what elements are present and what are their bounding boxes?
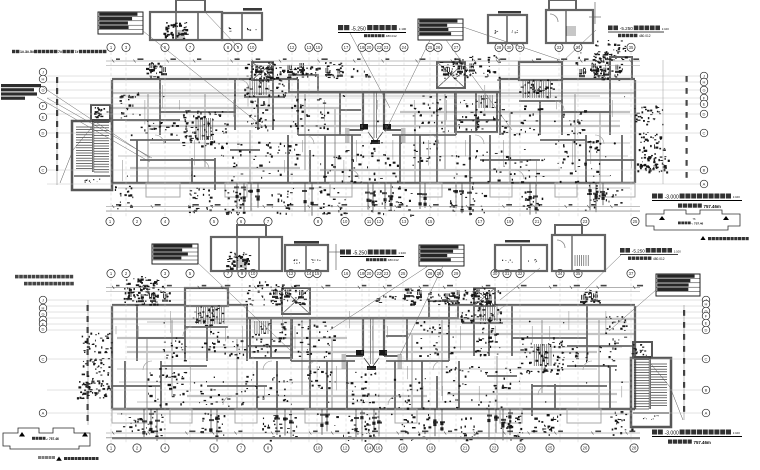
svg-text:34: 34: [576, 45, 581, 50]
svg-text:23: 23: [384, 45, 389, 50]
svg-text:757.46m: 757.46m: [694, 440, 711, 445]
svg-text:28: 28: [632, 446, 637, 451]
svg-text:-: 757.46: -: 757.46: [46, 437, 59, 441]
svg-text:22: 22: [492, 446, 497, 451]
svg-text:10: 10: [343, 219, 348, 224]
svg-text:35: 35: [629, 45, 634, 50]
svg-text:17: 17: [478, 219, 483, 224]
svg-text:J: J: [703, 74, 705, 79]
svg-text:25: 25: [633, 219, 638, 224]
svg-text:19: 19: [507, 219, 512, 224]
svg-text:-5.250: -5.250: [632, 249, 645, 254]
svg-text:14: 14: [367, 446, 372, 451]
svg-text:29: 29: [454, 271, 459, 276]
svg-text:23: 23: [519, 446, 524, 451]
svg-text:15: 15: [428, 219, 433, 224]
svg-text:1:100: 1:100: [733, 431, 740, 435]
svg-text:-3.000: -3.000: [665, 431, 679, 437]
svg-text:B: B: [703, 168, 706, 173]
svg-text:24: 24: [402, 45, 407, 50]
svg-text:C: C: [42, 357, 45, 362]
svg-text:E: E: [42, 115, 45, 120]
svg-text:7#: 7#: [75, 50, 79, 54]
svg-text:1:100: 1:100: [733, 195, 740, 199]
svg-text:10: 10: [250, 45, 255, 50]
svg-text:J: J: [42, 70, 44, 75]
svg-text:H: H: [42, 306, 45, 311]
svg-text:18: 18: [360, 45, 365, 50]
svg-text:25: 25: [428, 45, 433, 50]
svg-text:-5.250: -5.250: [620, 26, 633, 31]
svg-text:D: D: [703, 112, 706, 117]
svg-text:E: E: [705, 321, 708, 326]
svg-text:15: 15: [316, 45, 321, 50]
svg-text:21: 21: [535, 219, 540, 224]
svg-text:11: 11: [367, 219, 372, 224]
svg-text:J: J: [42, 298, 44, 303]
svg-text:A: A: [703, 182, 706, 187]
svg-text:22: 22: [377, 271, 382, 276]
svg-text:19: 19: [429, 446, 434, 451]
svg-text:23: 23: [384, 271, 389, 276]
svg-text:27: 27: [454, 45, 459, 50]
svg-text:A: A: [705, 411, 708, 416]
svg-text:G: G: [702, 88, 705, 93]
svg-text:480.012: 480.012: [639, 34, 651, 38]
svg-text:12: 12: [343, 446, 348, 451]
svg-text:16: 16: [344, 271, 349, 276]
svg-text:18: 18: [401, 446, 406, 451]
svg-text:25: 25: [548, 446, 553, 451]
svg-text:13: 13: [402, 219, 407, 224]
svg-text:37: 37: [629, 271, 634, 276]
svg-text:33: 33: [557, 45, 562, 50]
svg-text:12: 12: [290, 45, 295, 50]
svg-text:480.012: 480.012: [386, 34, 397, 38]
svg-text:C: C: [705, 357, 708, 362]
svg-text:17: 17: [344, 45, 349, 50]
svg-text:H: H: [703, 80, 706, 85]
svg-text:H: H: [705, 302, 708, 307]
svg-text:10: 10: [316, 446, 321, 451]
svg-text:26: 26: [583, 446, 588, 451]
svg-text:1:100: 1:100: [674, 250, 681, 254]
svg-text:757.46m: 757.46m: [704, 204, 721, 209]
svg-text:28: 28: [497, 45, 502, 50]
svg-text:20: 20: [367, 45, 372, 50]
svg-text:-3.000: -3.000: [665, 195, 679, 201]
svg-text:480.012: 480.012: [653, 257, 665, 261]
svg-text:25: 25: [401, 271, 406, 276]
svg-text:1:100: 1:100: [398, 251, 406, 255]
svg-text:21: 21: [463, 446, 468, 451]
svg-text:C: C: [703, 131, 706, 136]
svg-text:D: D: [42, 131, 45, 136]
svg-text:-5.250: -5.250: [351, 27, 366, 33]
svg-text:23: 23: [583, 219, 588, 224]
svg-text:22: 22: [377, 45, 382, 50]
svg-text:18: 18: [360, 271, 365, 276]
svg-text:-5.250: -5.250: [353, 251, 367, 257]
svg-text:B: B: [705, 388, 708, 393]
svg-text:30: 30: [507, 45, 512, 50]
svg-text:C: C: [42, 168, 45, 173]
svg-text:E: E: [703, 102, 706, 107]
svg-text:1:100: 1:100: [662, 27, 669, 31]
svg-text:26: 26: [436, 45, 441, 50]
svg-text:-: 757.46: -: 757.46: [691, 222, 703, 226]
svg-text:16: 16: [376, 446, 381, 451]
svg-text:A: A: [42, 411, 45, 416]
svg-text:13: 13: [307, 45, 312, 50]
svg-text:1:100: 1:100: [399, 27, 407, 31]
svg-text:D: D: [705, 328, 708, 333]
svg-text:G: G: [41, 312, 44, 317]
svg-text:12: 12: [377, 219, 382, 224]
svg-text:26: 26: [428, 271, 433, 276]
svg-text:480.012: 480.012: [388, 258, 399, 262]
svg-text:1#.3#.5#: 1#.3#.5#: [20, 50, 34, 54]
svg-text:7#: 7#: [58, 50, 62, 54]
svg-text:20: 20: [367, 271, 372, 276]
svg-text:H: H: [42, 77, 45, 82]
svg-text:D: D: [42, 327, 45, 332]
